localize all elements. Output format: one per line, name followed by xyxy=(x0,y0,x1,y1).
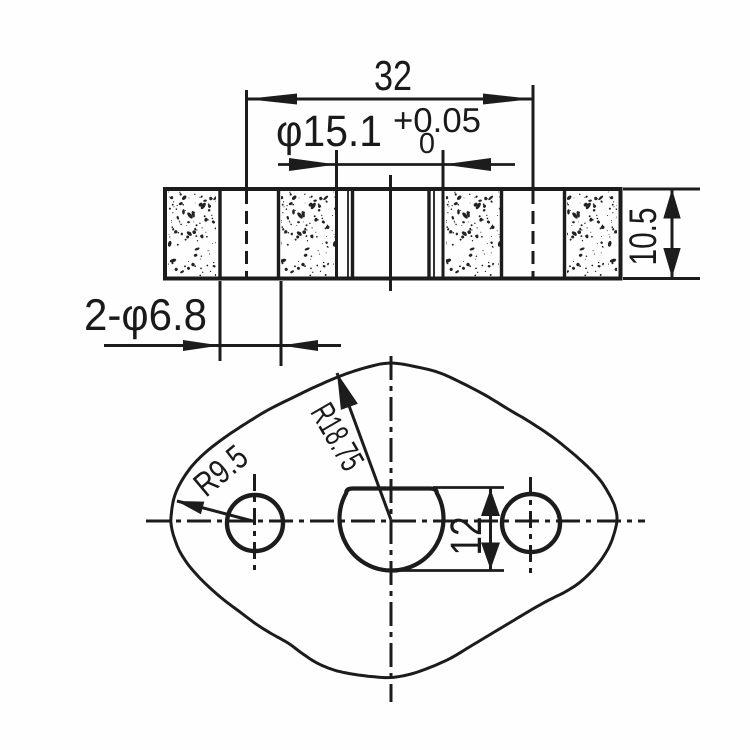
dimension 32 extension line left xyxy=(245,90,248,188)
vertical centre line xyxy=(390,356,393,702)
dimension 2-phi6.8 line xyxy=(104,344,341,347)
hole edge line x=220 xyxy=(218,191,221,277)
radius leader R9.5 arrowhead xyxy=(177,501,205,514)
hole edge line x=564.5 xyxy=(563,191,566,277)
dimension 12 arrow up xyxy=(481,489,500,516)
svg-text:+0.05: +0.05 xyxy=(393,102,481,140)
radius leader R18.75 arrowhead xyxy=(337,373,358,410)
stipple material region 1 xyxy=(168,191,216,277)
horizontal centre line xyxy=(146,520,645,523)
dimension 32 arrow right xyxy=(483,94,533,105)
svg-text:2-φ6.8: 2-φ6.8 xyxy=(84,291,207,340)
stipple material region 4 xyxy=(567,191,617,277)
flange outline xyxy=(171,363,617,678)
svg-text:10.5: 10.5 xyxy=(622,208,665,266)
dimension phi15.1 extension line left xyxy=(335,150,338,277)
dimension 32 line xyxy=(247,98,534,101)
dimension 32 extension line right xyxy=(532,85,535,188)
dimension 2-phi6.8 arrow 2 xyxy=(281,340,318,351)
dimension phi15.1 line xyxy=(278,163,515,166)
left bolt hole circle xyxy=(227,495,283,551)
thin step line x=434 xyxy=(433,191,435,277)
dimension 32 arrow left xyxy=(247,94,298,105)
dimension 10.5 arrow down xyxy=(663,248,680,278)
dimension 10.5 line xyxy=(671,189,674,279)
dimension 2-phi6.8 extension line 2 xyxy=(280,281,283,366)
left bolt hole centre line xyxy=(253,474,256,575)
hole edge line x=429 xyxy=(427,191,430,277)
hole edge line x=278.5 xyxy=(277,191,280,277)
dimension phi15.1 arrow left xyxy=(289,158,337,171)
radius leader R18.75 line xyxy=(337,373,391,520)
dimension 12 arrow down xyxy=(481,543,500,570)
svg-text:φ15.1: φ15.1 xyxy=(276,107,382,156)
svg-text:0: 0 xyxy=(419,128,435,160)
right bolt hole circle xyxy=(502,494,560,552)
dimension 10.5 extension line top xyxy=(623,188,700,191)
svg-text:32: 32 xyxy=(374,52,412,99)
svg-text:12: 12 xyxy=(442,517,491,556)
svg-text:R9.5: R9.5 xyxy=(187,438,256,504)
dimension 12 line xyxy=(489,488,492,571)
thin step line x=348 xyxy=(347,191,349,277)
stipple material region 3 xyxy=(446,191,500,277)
dimension 2-phi6.8 extension line 1 xyxy=(219,281,222,361)
dimension 10.5 extension line bottom xyxy=(623,277,700,280)
flange body rectangle outline xyxy=(165,189,621,279)
dimension 2-phi6.8 arrow 1 xyxy=(183,340,220,351)
centre hole with flat top xyxy=(340,489,444,571)
radius leader R9.5 line xyxy=(177,501,255,522)
dimension 12 extension line bottom xyxy=(396,569,504,572)
dimension phi15.1 extension line right xyxy=(442,150,445,277)
stipple material region 2 xyxy=(281,191,336,277)
bolt hole 2 dashed centerline xyxy=(532,191,535,277)
bolt hole 1 dashed centerline xyxy=(245,191,248,277)
dimension phi15.1 arrow right xyxy=(443,158,491,171)
dimension 12 extension line top xyxy=(433,486,504,489)
hole edge line x=352.5 xyxy=(351,191,354,277)
section centre line xyxy=(389,175,392,291)
dimension 10.5 arrow up xyxy=(663,189,680,219)
hole edge line x=501.5 xyxy=(500,191,503,277)
right bolt hole centre line xyxy=(529,477,532,573)
